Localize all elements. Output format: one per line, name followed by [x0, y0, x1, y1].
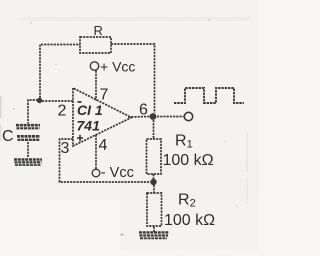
svg-text:+ Vcc: + Vcc [100, 59, 135, 75]
wire top-left horizontal (node A up to resistor R) [40, 45, 80, 99]
capacitor C plate 2 (hatched) [17, 136, 40, 140]
ground below R2 (hatched bar) [139, 232, 169, 238]
resistor R2 body [147, 193, 162, 226]
node A junction dot [37, 98, 42, 103]
+Vcc terminal circle [90, 62, 98, 70]
wire R2 to ground [153, 227, 155, 233]
wire capacitor C to ground [27, 142, 29, 158]
svg-text:- Vcc: - Vcc [101, 165, 134, 181]
pin 7 line [95, 71, 97, 101]
wire pin 3 loop [60, 139, 151, 182]
svg-text:3: 3 [61, 140, 70, 157]
wire node B to R2 [153, 185, 155, 193]
wire output node to terminal [157, 116, 184, 118]
node B junction dot [150, 179, 156, 185]
wire node A to capacitor C [28, 100, 38, 124]
-Vcc terminal circle [92, 169, 100, 177]
svg-text:R: R [94, 23, 103, 38]
non-inverting input marker + [77, 135, 83, 142]
scan speckles [0, 19, 248, 236]
wire node A to pin 2 [42, 100, 73, 102]
output node junction dot [150, 113, 157, 120]
svg-text:C: C [2, 128, 14, 145]
resistor R body [80, 37, 111, 53]
wire output node to apex [128, 116, 150, 119]
resistor R1 body [147, 139, 162, 174]
svg-text:7: 7 [100, 87, 109, 104]
pin 4 line [95, 135, 97, 170]
wire resistor R to right rail [111, 44, 155, 113]
square wave output symbol [174, 88, 244, 103]
wire R1 to node B [153, 174, 155, 179]
ground below capacitor (hatched bar) [14, 160, 42, 166]
svg-text:100 kΩ: 100 kΩ [164, 212, 215, 229]
svg-text:100 kΩ: 100 kΩ [163, 152, 214, 169]
wire output node down to R1 [153, 120, 155, 139]
svg-text:6: 6 [139, 102, 148, 119]
svg-text:2: 2 [58, 103, 67, 120]
svg-text:CI 1: CI 1 [77, 102, 103, 118]
op-amp U1 triangle [73, 88, 132, 146]
inverting input marker - [78, 101, 82, 103]
capacitor C plate 1 (hatched) [16, 125, 40, 128]
svg-text:4: 4 [99, 137, 108, 154]
output open terminal circle [184, 112, 192, 120]
svg-text:741: 741 [77, 118, 101, 134]
